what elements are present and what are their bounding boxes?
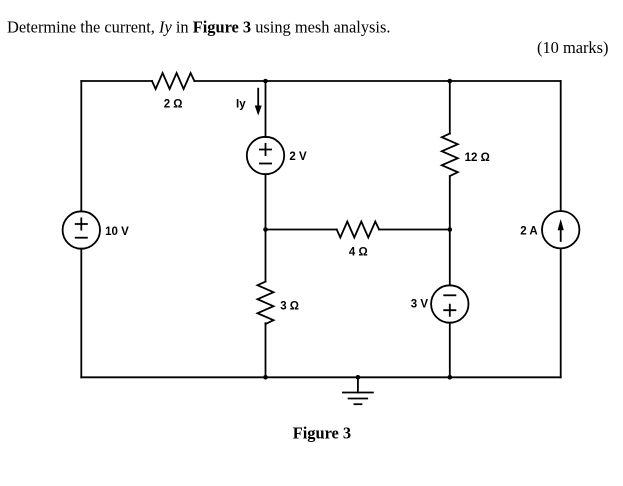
wire left side lower: [80, 249, 82, 378]
svg-text:12 Ω: 12 Ω: [465, 152, 490, 164]
wire middle-right segment: [379, 229, 450, 231]
node D: middle right junction dot: [448, 227, 453, 232]
wire from 12Ω to middle node: [449, 177, 451, 230]
wire from middle node down to 3Ω: [265, 230, 267, 282]
wire from top node down to 2V source: [265, 81, 267, 137]
svg-text:Determine the current, Iy in F: Determine the current, Iy in Figure 3 us…: [7, 18, 390, 37]
V1 plus sign: [76, 218, 87, 229]
svg-text:Figure 3: Figure 3: [293, 424, 351, 443]
V1 minus sign: [76, 237, 87, 239]
svg-text:3 Ω: 3 Ω: [280, 300, 299, 312]
wire from 3Ω to bottom: [265, 323, 267, 377]
ground bar 1: [343, 392, 373, 394]
node C: middle left junction dot: [263, 227, 268, 232]
resistor R2 4Ω zigzag: [337, 222, 379, 238]
wire top-right segment: [194, 80, 560, 82]
wire right side lower: [560, 248, 562, 377]
wire middle-left segment: [266, 229, 337, 231]
current arrow Iy shaft: [257, 89, 259, 106]
resistor R4 12Ω zigzag vertical: [442, 134, 458, 176]
svg-text:3 V: 3 V: [411, 299, 429, 311]
resistor R1 2Ω zigzag: [152, 73, 194, 89]
current arrow Iy head: [255, 106, 262, 116]
svg-text:(10 marks): (10 marks): [537, 38, 608, 57]
V3 minus sign: [444, 294, 455, 296]
I1 arrow shaft: [560, 229, 562, 242]
svg-text:Iy: Iy: [236, 98, 246, 110]
svg-text:10 V: 10 V: [105, 226, 129, 238]
voltage source V3 3V circle: [431, 285, 468, 322]
voltage source V1 10V circle: [63, 211, 100, 248]
wire from 2V source to middle node: [265, 174, 267, 229]
I1 2A arrow head: [558, 219, 564, 230]
node G: bottom right junction dot: [448, 375, 453, 380]
voltage source V2 2V circle: [247, 137, 284, 174]
ground bar 3: [354, 403, 361, 405]
wire left side upper: [80, 81, 82, 211]
wire from middle node down to 3V source: [449, 230, 451, 286]
resistor R3 3Ω zigzag vertical: [258, 282, 274, 324]
ground stub: [357, 377, 359, 392]
wire right side upper: [560, 81, 562, 211]
ground bar 2: [349, 398, 368, 400]
node B: top right junction dot: [448, 79, 453, 84]
wire top-left segment: [81, 80, 152, 82]
V3 plus sign: [444, 305, 455, 316]
node F: ground junction dot: [356, 375, 361, 380]
svg-text:2 A: 2 A: [520, 226, 537, 238]
svg-text:4 Ω: 4 Ω: [349, 247, 368, 259]
wire bottom: [81, 376, 560, 378]
V2 plus sign: [260, 144, 271, 155]
node A: top middle junction dot: [263, 79, 268, 84]
V2 minus sign: [260, 163, 271, 165]
wire from 3V source to bottom: [449, 323, 451, 378]
svg-text:2 V: 2 V: [289, 151, 307, 163]
svg-text:2 Ω: 2 Ω: [164, 99, 183, 111]
current source I1 2A circle: [542, 211, 579, 248]
wire from top node down to 12Ω: [449, 81, 451, 134]
node E: bottom left junction dot: [263, 375, 268, 380]
